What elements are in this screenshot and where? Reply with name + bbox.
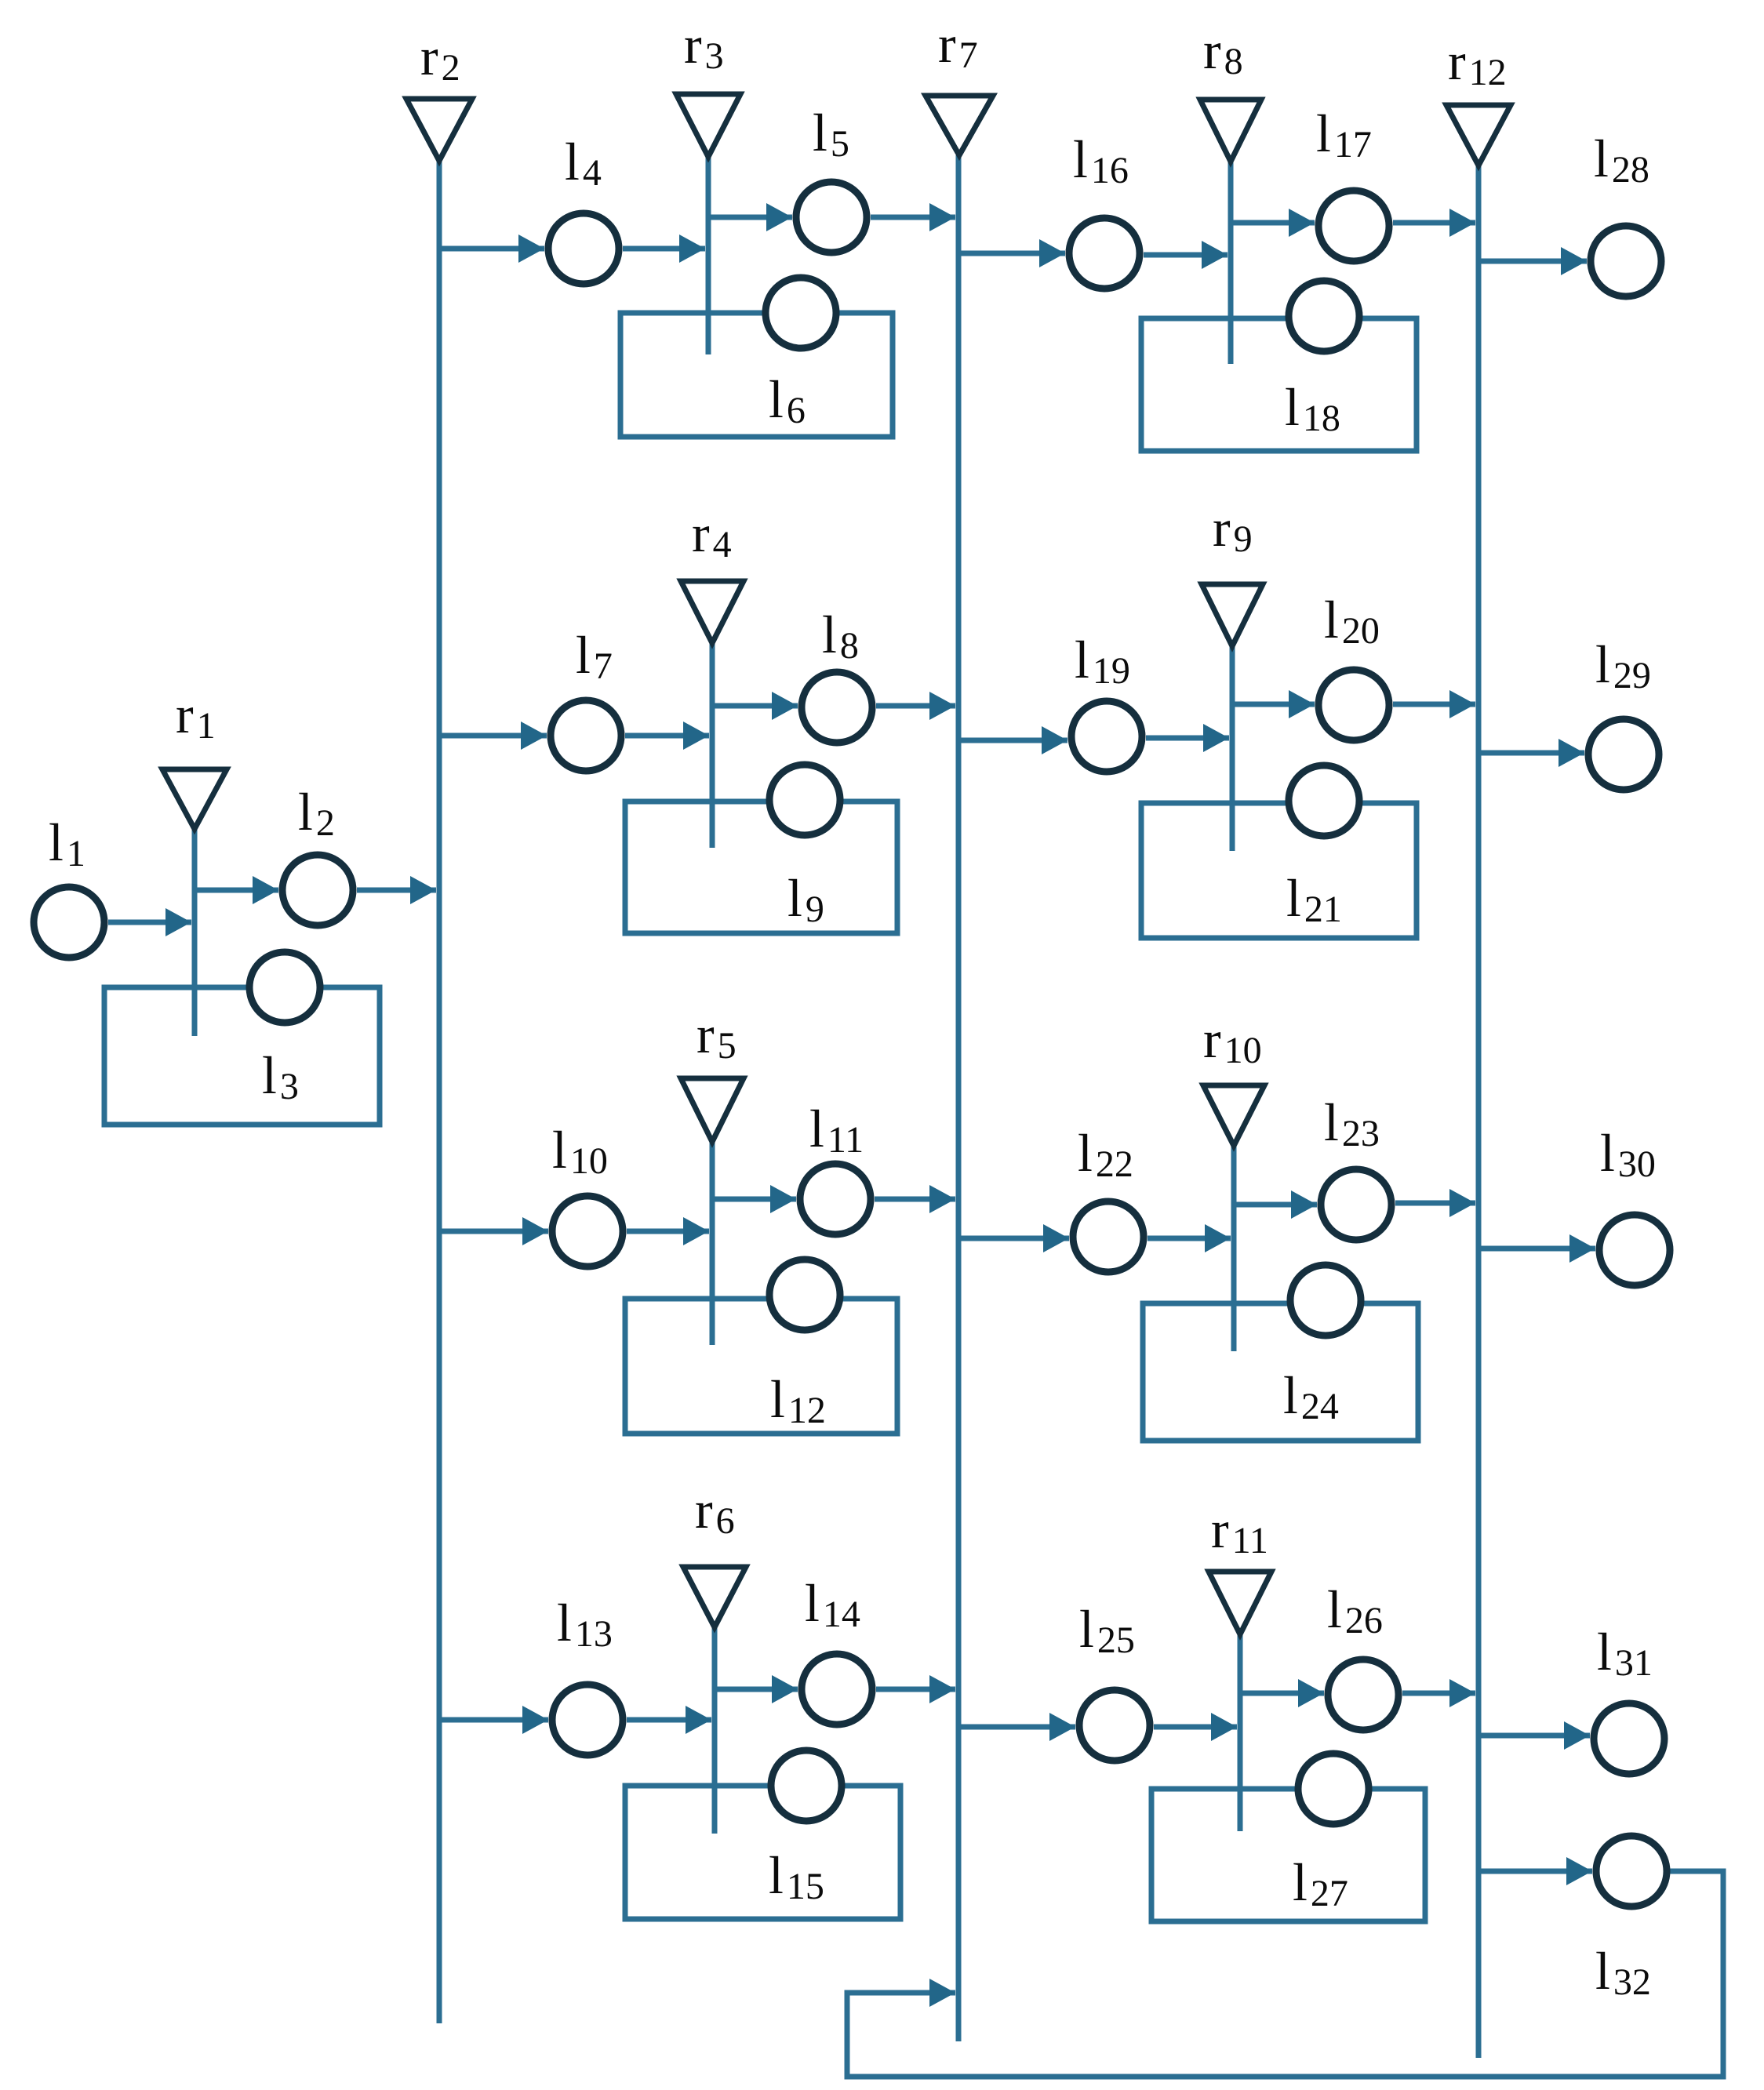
wire l24 loop rectangle xyxy=(1143,1303,1418,1441)
wire l17 to r12 arrow xyxy=(1393,220,1475,226)
wire r6 trunk xyxy=(712,1627,718,1834)
wire r12 trunk xyxy=(1476,165,1482,2058)
wire r1 to l2 arrow xyxy=(195,888,278,893)
place l5 xyxy=(796,182,867,253)
wire l13 to r6 arrow xyxy=(627,1717,711,1723)
wire r1 trunk xyxy=(192,829,198,1036)
place l7 xyxy=(551,700,621,771)
antenna r4 xyxy=(681,581,744,643)
wire l25 to r11 arrow xyxy=(1154,1725,1237,1730)
place l30 xyxy=(1599,1215,1670,1285)
place l1 xyxy=(34,887,104,958)
wire r5 trunk xyxy=(710,1142,715,1345)
place l32 xyxy=(1596,1836,1667,1906)
place l4 xyxy=(548,213,619,284)
wire r2 to l4 arrow xyxy=(439,246,544,252)
wire l8 to r7 arrow xyxy=(876,703,955,709)
place l23 xyxy=(1321,1169,1391,1240)
place l24 xyxy=(1290,1265,1361,1336)
wire l15 loop rectangle xyxy=(625,1786,900,1919)
wire l18 loop rectangle xyxy=(1141,318,1417,451)
antenna r7 xyxy=(926,96,993,155)
wire l19 to r9 arrow xyxy=(1146,736,1229,741)
wire r9 to l20 arrow xyxy=(1232,702,1315,707)
wire r7 to l16 arrow xyxy=(958,251,1065,256)
place l26 xyxy=(1328,1659,1398,1730)
antenna r5 xyxy=(681,1078,744,1142)
place l8 xyxy=(802,672,872,743)
wire r3 trunk xyxy=(706,157,711,354)
place l28 xyxy=(1591,226,1661,296)
wire r6 to l14 arrow xyxy=(715,1687,798,1692)
place l19 xyxy=(1071,701,1142,772)
wire l10 to r5 arrow xyxy=(627,1229,709,1234)
wire r2 trunk xyxy=(437,161,442,2023)
place l9 xyxy=(769,765,840,835)
antenna r1 xyxy=(162,769,227,829)
wire r12 to l32 arrow xyxy=(1478,1869,1592,1874)
wire r10 to l23 arrow xyxy=(1234,1202,1317,1208)
wire r7 to l25 arrow xyxy=(958,1725,1075,1730)
place l25 xyxy=(1079,1690,1150,1761)
place l12 xyxy=(769,1259,840,1330)
wire l9 loop rectangle xyxy=(625,801,897,933)
wire r12 to l30 arrow xyxy=(1478,1246,1595,1252)
wire l16 to r8 arrow xyxy=(1144,253,1228,258)
place l18 xyxy=(1289,281,1359,351)
wire l12 loop rectangle xyxy=(625,1299,897,1434)
place l21 xyxy=(1289,765,1359,836)
wire l11 to r7 arrow xyxy=(875,1197,955,1202)
antenna r6 xyxy=(683,1567,746,1627)
wire r5 to l11 arrow xyxy=(712,1197,796,1202)
place l11 xyxy=(800,1164,871,1234)
wire l27 loop rectangle xyxy=(1151,1789,1425,1921)
wire l23 to r12 arrow xyxy=(1395,1201,1475,1206)
place l10 xyxy=(552,1196,623,1267)
wire r7 to l22 arrow xyxy=(958,1236,1069,1241)
wire l32 feedback loop xyxy=(847,1871,1723,2077)
antenna r12 xyxy=(1446,105,1511,165)
place l13 xyxy=(552,1685,623,1755)
place l14 xyxy=(802,1654,872,1725)
wire r2 to l7 arrow xyxy=(439,733,547,739)
wire r4 trunk xyxy=(710,643,715,848)
wire r2 to l13 arrow xyxy=(439,1717,548,1723)
place l29 xyxy=(1588,719,1659,790)
antenna r8 xyxy=(1200,100,1261,162)
place l27 xyxy=(1298,1754,1369,1824)
wire r8 to l17 arrow xyxy=(1231,220,1315,226)
wire l22 to r10 arrow xyxy=(1148,1236,1231,1241)
wire l3 loop rectangle xyxy=(104,987,380,1125)
place l20 xyxy=(1318,670,1389,740)
place l16 xyxy=(1069,218,1140,289)
place l3 xyxy=(249,952,320,1023)
wire r11 to l26 arrow xyxy=(1240,1691,1324,1696)
wire l4 to r3 arrow xyxy=(623,246,705,252)
wire r11 trunk xyxy=(1238,1634,1243,1831)
wire l21 loop rectangle xyxy=(1141,803,1417,938)
wire l14 to r7 arrow xyxy=(876,1687,955,1692)
wire r2 to l10 arrow xyxy=(439,1229,548,1234)
place l22 xyxy=(1073,1201,1144,1272)
wire r9 trunk xyxy=(1230,646,1235,851)
wire r12 to l29 arrow xyxy=(1478,751,1584,756)
place l31 xyxy=(1594,1703,1664,1774)
wire r4 to l8 arrow xyxy=(712,703,798,709)
wire l5 to r7 arrow xyxy=(871,215,955,220)
wire l2 to r2 arrow xyxy=(357,888,436,893)
wire r3 to l5 arrow xyxy=(708,215,792,220)
wire r8 trunk xyxy=(1228,162,1234,364)
wire r7 trunk xyxy=(956,155,962,2041)
place l17 xyxy=(1318,191,1389,261)
wire r12 to l31 arrow xyxy=(1478,1733,1590,1739)
wire r10 trunk xyxy=(1231,1146,1237,1351)
wire r7 to l19 arrow xyxy=(958,738,1067,743)
antenna r10 xyxy=(1203,1085,1264,1146)
place l6 xyxy=(766,278,836,348)
wire l20 to r12 arrow xyxy=(1393,702,1475,707)
wire r12 to l28 arrow xyxy=(1478,259,1587,264)
wire l1 to r1 arrow xyxy=(108,920,191,925)
antenna r9 xyxy=(1202,584,1263,646)
wire l7 to r4 arrow xyxy=(625,733,709,739)
wire l6 loop rectangle xyxy=(620,313,893,437)
antenna r11 xyxy=(1209,1572,1271,1634)
antenna r2 xyxy=(406,99,472,161)
wire l26 to r12 arrow xyxy=(1402,1691,1475,1696)
place l15 xyxy=(771,1750,842,1821)
antenna r3 xyxy=(676,94,740,157)
place l2 xyxy=(282,855,353,925)
